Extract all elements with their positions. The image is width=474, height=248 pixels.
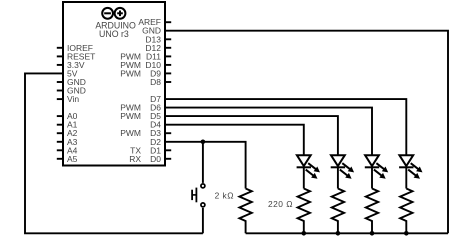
wire D6 to LED3 bbox=[164, 108, 372, 155]
wire D5 to LED2 bbox=[164, 116, 338, 155]
pushbutton S1 bbox=[192, 184, 205, 207]
wire 5V to bottom-left rail to pushbutton bbox=[25, 73, 203, 233]
node LED1 to rail bbox=[302, 231, 307, 236]
resistor R2 220 bbox=[298, 189, 310, 234]
IC U1 : Arduino UNO r3 body bbox=[63, 2, 165, 166]
svg-text:RX: RX bbox=[129, 154, 141, 164]
PWM / TX / RX labels bbox=[120, 51, 141, 163]
wire GND along top to right edge down to ground rail bbox=[164, 31, 448, 234]
wire button bottom to left rail bbox=[202, 208, 204, 233]
left pin stubs bbox=[57, 48, 64, 159]
LED LED4 bbox=[399, 155, 422, 188]
wire D7 to LED4 bbox=[164, 99, 406, 155]
resistor R5 220 bbox=[400, 189, 412, 234]
svg-text:A5: A5 bbox=[67, 154, 78, 164]
svg-text:UNO r3: UNO r3 bbox=[99, 29, 129, 39]
node LED2 to rail bbox=[336, 231, 341, 236]
svg-text:PWM: PWM bbox=[120, 128, 141, 138]
svg-text:220 Ω: 220 Ω bbox=[268, 199, 293, 209]
svg-text:2 kΩ: 2 kΩ bbox=[215, 191, 234, 201]
pin labels left bbox=[67, 43, 95, 164]
Arduino logo bbox=[102, 8, 125, 19]
resistor R4 220 bbox=[366, 189, 378, 234]
svg-text:D0: D0 bbox=[150, 154, 161, 164]
wire D4 to LED1 bbox=[164, 125, 304, 155]
bottom-right ground rail bbox=[246, 232, 448, 234]
LED LED1 bbox=[297, 155, 320, 188]
LED LED3 bbox=[365, 155, 388, 188]
svg-text:PWM: PWM bbox=[120, 68, 141, 78]
node LED3 to rail bbox=[370, 231, 375, 236]
wire junction down to button top bbox=[202, 142, 204, 183]
svg-text:Vin: Vin bbox=[67, 94, 79, 104]
wire D2 to button node and resistor R1 bbox=[164, 142, 246, 189]
right pin stubs bbox=[164, 22, 171, 159]
resistor R3 220 bbox=[332, 189, 344, 234]
svg-text:D8: D8 bbox=[150, 77, 161, 87]
LED LED2 bbox=[331, 155, 354, 188]
resistor R1 2k pulldown bbox=[239, 189, 251, 234]
svg-text:PWM: PWM bbox=[120, 111, 141, 121]
node LED4 to rail bbox=[404, 231, 409, 236]
node D2/button junction bbox=[201, 140, 206, 145]
pin labels right bbox=[138, 17, 161, 164]
